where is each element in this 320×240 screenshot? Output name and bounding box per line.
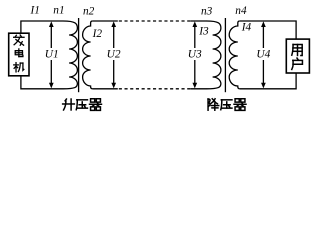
generator label char 电 <box>15 49 23 57</box>
svg-text:U1: U1 <box>45 49 59 61</box>
svg-text:n1: n1 <box>53 4 64 16</box>
voltage arrow U3 (double-headed) <box>194 26 196 85</box>
transformer T2 secondary winding n4 <box>229 21 240 89</box>
voltage arrow U4 (double-headed) <box>262 26 264 85</box>
wire: loop2 top rail dashed transmission line <box>119 20 191 22</box>
svg-text:I1: I1 <box>30 4 40 16</box>
label 升压器 char 器 <box>90 99 102 111</box>
consumer label char 户 <box>292 58 303 69</box>
wire: generator bottom lead and bottom rail of loop 1 <box>21 76 63 89</box>
label 升压器 char 压 <box>76 100 87 110</box>
label 升压器 (step-up transformer) char 升 <box>63 99 75 110</box>
svg-text:U4: U4 <box>256 49 270 61</box>
wire: loop2 bottom rail dashed transmission line <box>119 88 191 90</box>
wire: loop2 bottom rail solid right part <box>190 88 206 90</box>
transformer T1 core <box>78 18 80 92</box>
svg-text:U3: U3 <box>188 49 202 61</box>
svg-text:n2: n2 <box>83 5 95 17</box>
svg-text:n4: n4 <box>235 5 247 17</box>
svg-text:I3: I3 <box>198 25 209 37</box>
wire: loop2 top rail solid right part <box>190 20 206 22</box>
wire: loop2 top rail solid left part <box>93 20 118 22</box>
svg-text:I4: I4 <box>241 22 252 34</box>
consumer label char 用 <box>292 45 302 56</box>
transformer T1 secondary winding n2 <box>83 21 93 89</box>
transformer T2 primary winding n3 <box>207 21 221 89</box>
voltage arrow U1 (double-headed) <box>50 26 52 85</box>
generator label char 机 <box>14 63 24 72</box>
generator box 发电机 <box>9 33 29 76</box>
wire: generator top lead and top rail of loop 1 <box>21 21 63 33</box>
label 降压器 char 器 <box>234 99 246 111</box>
wire: loop3 top rail <box>240 21 296 39</box>
svg-text:n3: n3 <box>201 5 213 17</box>
wire: loop2 bottom rail solid left part <box>93 88 118 90</box>
generator label char 发 <box>14 35 24 45</box>
svg-text:I2: I2 <box>92 28 103 40</box>
consumer box 用户 <box>286 39 309 73</box>
label 降压器 char 压 <box>221 100 232 110</box>
svg-text:U2: U2 <box>107 49 121 61</box>
voltage arrow U2 (double-headed) <box>113 26 115 85</box>
transformer T1 primary winding n1 <box>63 21 77 89</box>
wire: loop3 bottom rail <box>240 73 296 89</box>
transformer T2 core <box>224 18 226 92</box>
label 降压器 (step-down transformer) char 降 <box>208 99 219 110</box>
